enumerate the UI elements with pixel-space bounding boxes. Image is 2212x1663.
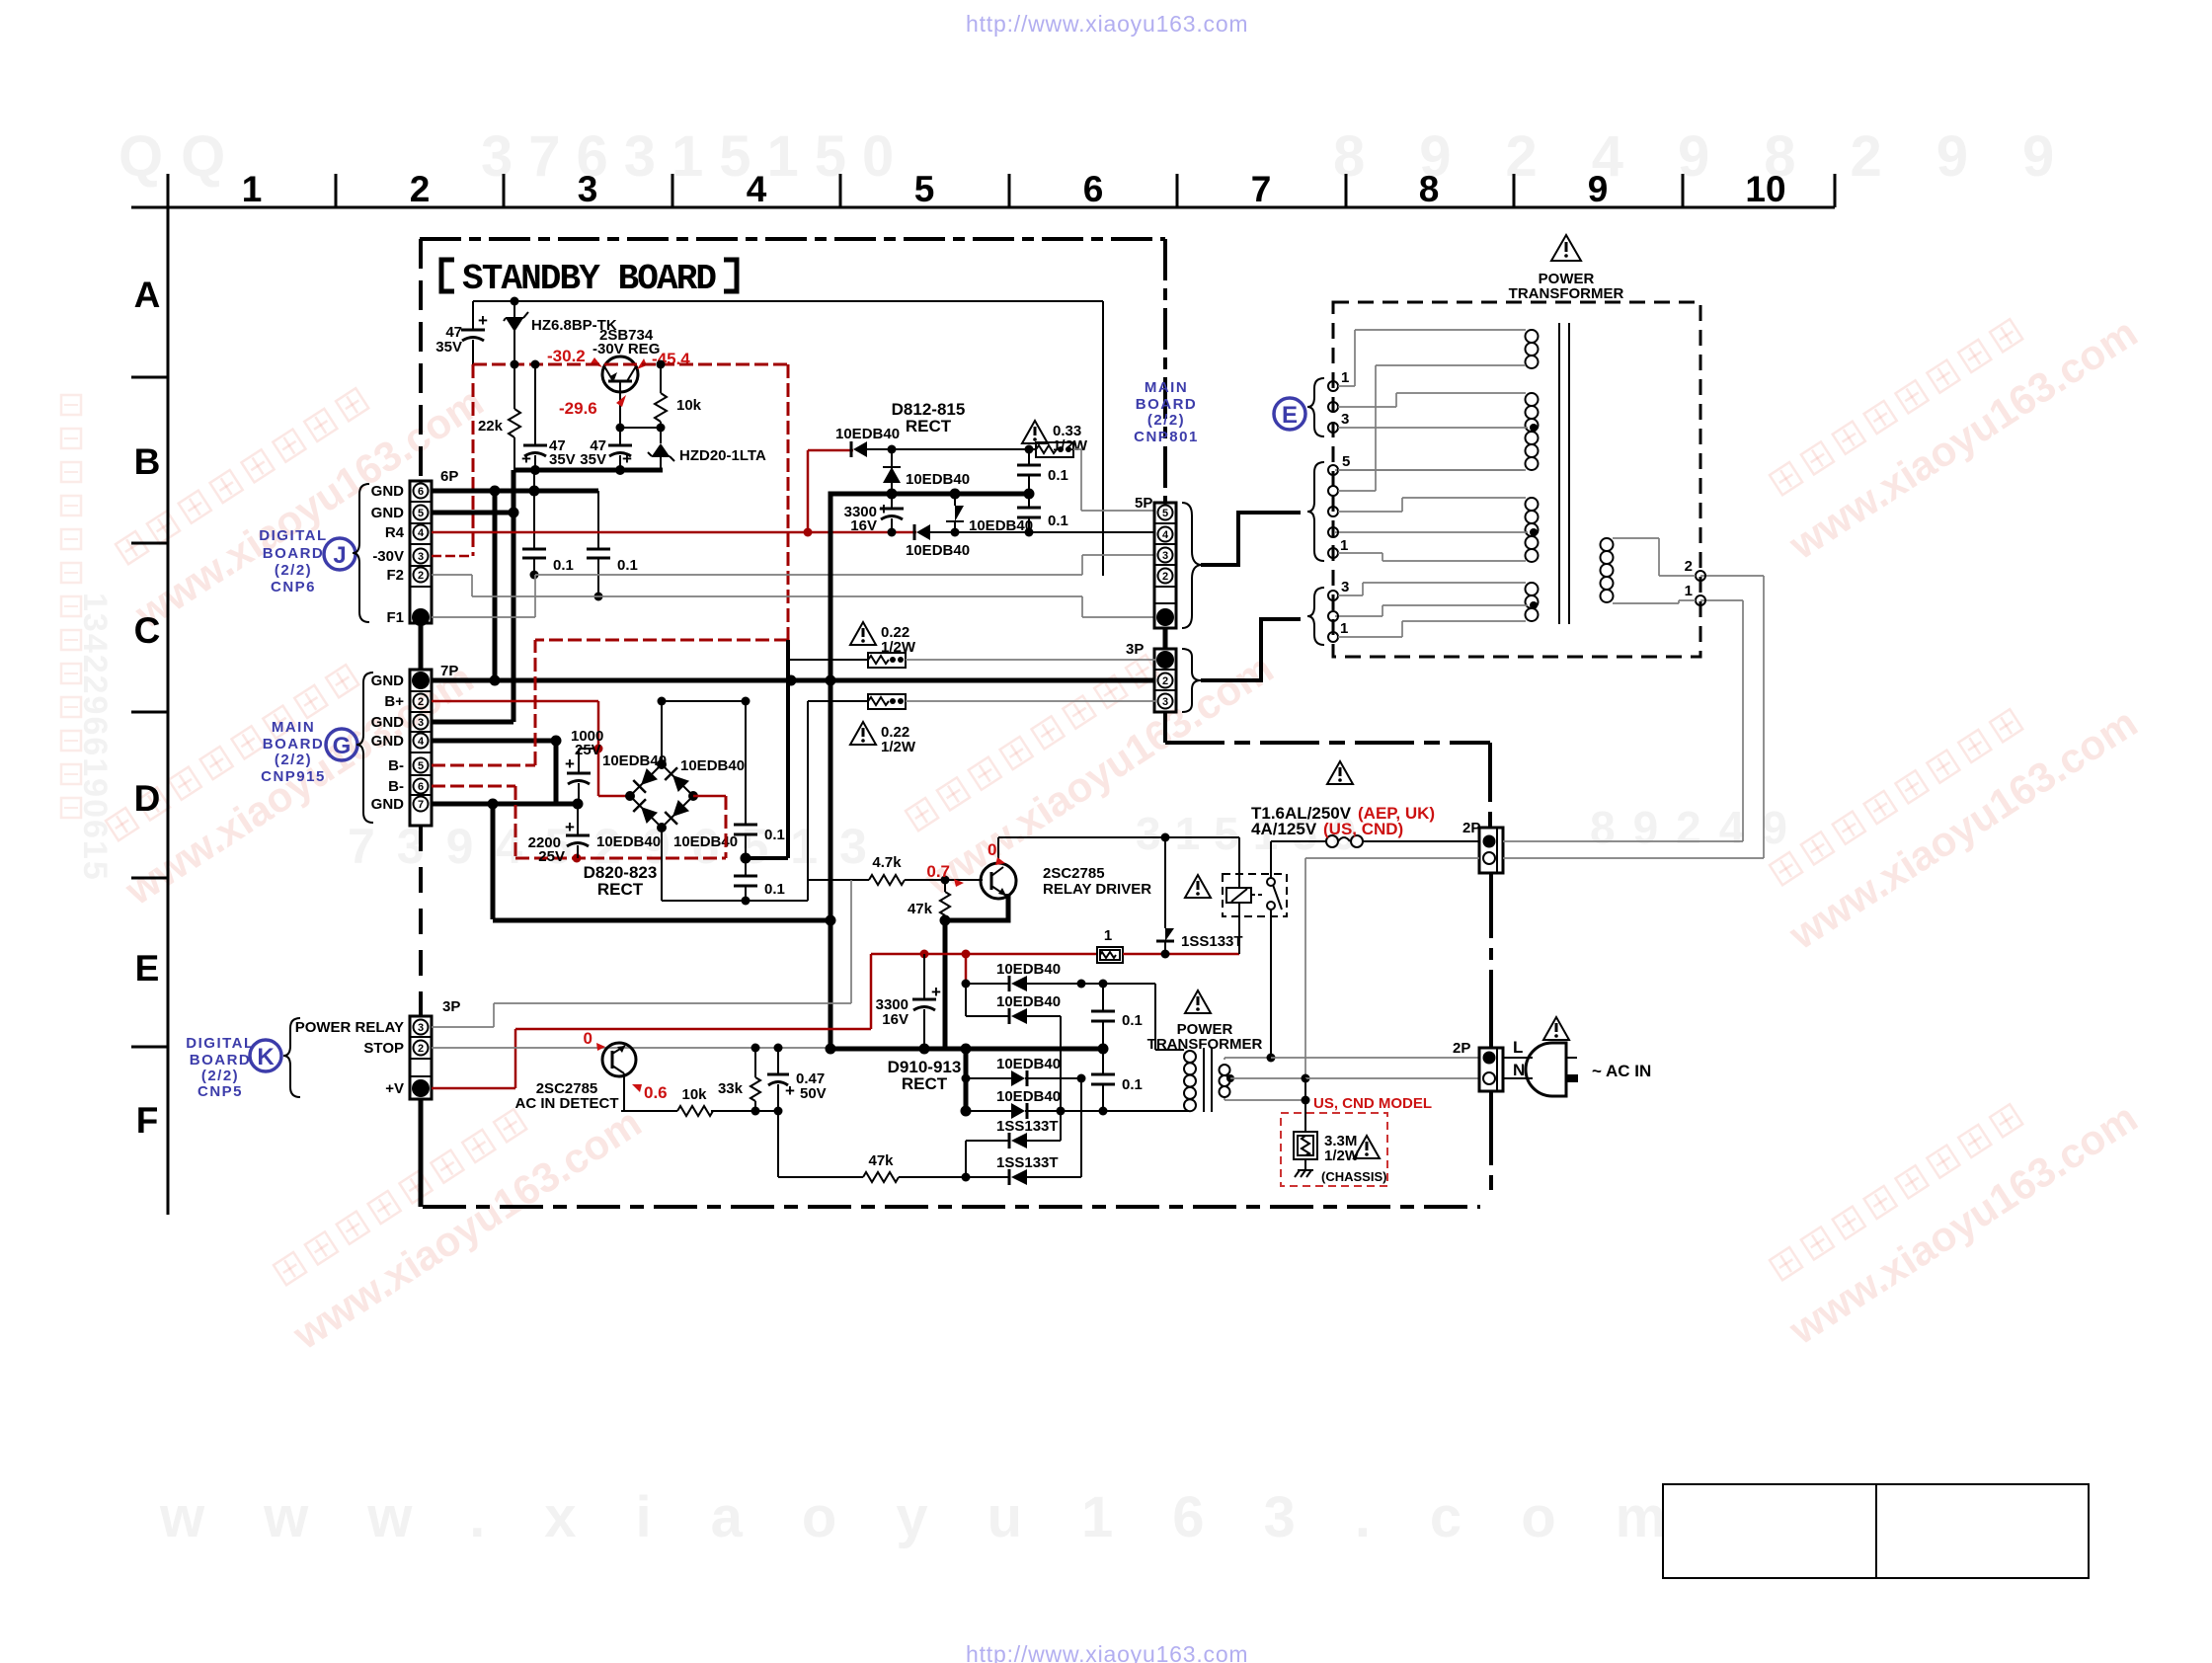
7P pin 7 bbox=[414, 797, 429, 812]
diode 10EDB40 on R4 row bbox=[906, 524, 970, 559]
thick link 5P to 3P bbox=[1163, 628, 1168, 649]
K pin labels bbox=[295, 1019, 404, 1097]
resistor 4.7k bbox=[869, 854, 905, 885]
svg-text:RECT: RECT bbox=[597, 880, 644, 899]
relay coil bbox=[1226, 837, 1251, 954]
top ruler numbers bbox=[242, 169, 1786, 209]
voltage label 0 red (ac det) bbox=[584, 1029, 605, 1051]
svg-text:RECT: RECT bbox=[906, 417, 952, 436]
wire 0.33 to 5P pin5 bbox=[1073, 449, 1155, 511]
transistor Q 2SC2785 relay driver bbox=[981, 837, 1151, 899]
brace transformer group1 bbox=[1307, 378, 1324, 436]
svg-text:4A/125V: 4A/125V bbox=[1251, 820, 1317, 838]
svg-text:10EDB40: 10EDB40 bbox=[906, 542, 970, 559]
pink watermark stamp right lower bbox=[1752, 1051, 2145, 1353]
svg-text:R4: R4 bbox=[385, 524, 405, 541]
wire red row 966 right bbox=[1123, 950, 1239, 959]
label D910-913 RECT bbox=[888, 1058, 962, 1093]
faint left vertical digits column bbox=[76, 593, 114, 882]
svg-text:1: 1 bbox=[1341, 369, 1349, 386]
wire vertical x818 row710 to row912 bbox=[807, 701, 809, 901]
5P pin 4 bbox=[1158, 527, 1173, 542]
standby board title brackets bbox=[441, 260, 737, 291]
svg-text:+V: +V bbox=[385, 1080, 404, 1097]
warning triangle relay bbox=[1185, 875, 1211, 898]
svg-text:10k: 10k bbox=[681, 1086, 707, 1103]
link 6P to 7P bbox=[419, 623, 424, 670]
voltage label 0.7 red bbox=[926, 862, 964, 887]
svg-text:F1: F1 bbox=[386, 609, 404, 626]
label POWER TRANSFORMER top bbox=[1509, 271, 1624, 302]
capacitor 47/35V second bbox=[521, 364, 576, 470]
wire GND5 row bbox=[432, 508, 519, 518]
pink watermark stamp middle bbox=[888, 601, 1281, 904]
wire red vertical x522 to +V bbox=[514, 1029, 517, 1088]
svg-text:+: + bbox=[931, 983, 941, 1001]
svg-text:0: 0 bbox=[584, 1029, 592, 1048]
table box bbox=[1663, 1484, 2089, 1578]
bridge diamond 10EDB40 x4 bbox=[596, 752, 745, 850]
wire B+ red row y710 bbox=[432, 701, 630, 796]
wire GND6 row bbox=[432, 486, 598, 497]
wire +V red row bbox=[432, 1087, 515, 1090]
svg-text:(2/2): (2/2) bbox=[1147, 412, 1185, 429]
wire collector row y848 bbox=[998, 833, 1239, 842]
svg-text:0.1: 0.1 bbox=[553, 557, 574, 574]
svg-text:2P: 2P bbox=[1453, 1040, 1470, 1057]
diode 10EDB40 row1 bbox=[962, 961, 1156, 991]
svg-text:GND: GND bbox=[371, 483, 405, 500]
svg-text:1/2W: 1/2W bbox=[1053, 437, 1088, 454]
warning triangle 0.22 first bbox=[850, 622, 916, 656]
svg-text:GND: GND bbox=[371, 733, 405, 750]
capacitor 0.1 (F1 net) bbox=[522, 491, 574, 580]
capacitor 47/35V third bbox=[580, 428, 632, 470]
wire R4 red row to 5P pin4 bbox=[432, 528, 1155, 537]
svg-text:0.6: 0.6 bbox=[644, 1083, 668, 1102]
7P pin labels bbox=[371, 673, 405, 813]
svg-text:+: + bbox=[879, 500, 889, 518]
wire relay switch bottom to AC L row bbox=[1270, 910, 1272, 1058]
svg-text:16V: 16V bbox=[882, 1011, 908, 1028]
transformer pin number labels bbox=[1340, 369, 1350, 637]
voltage label -30.2 red bbox=[547, 347, 602, 367]
svg-text:3P: 3P bbox=[1126, 641, 1144, 658]
transformer secondary coil 2 bbox=[1335, 393, 1539, 470]
svg-text:DIGITAL: DIGITAL bbox=[186, 1035, 254, 1052]
svg-text:1: 1 bbox=[1340, 620, 1348, 637]
svg-text:10: 10 bbox=[1745, 169, 1785, 209]
wire 0.47 down to 47k row bbox=[777, 1111, 779, 1177]
resistor 47k vertical bbox=[908, 880, 950, 920]
svg-text:4: 4 bbox=[418, 736, 425, 748]
voltage label -29.6 red bbox=[559, 395, 626, 418]
svg-text:BOARD: BOARD bbox=[1136, 396, 1198, 413]
svg-text:-30.2: -30.2 bbox=[547, 347, 586, 365]
svg-text:-30V: -30V bbox=[372, 548, 404, 565]
svg-text:CNP801: CNP801 bbox=[1134, 429, 1199, 445]
svg-text:35V: 35V bbox=[549, 451, 576, 468]
svg-text:+: + bbox=[565, 754, 575, 773]
svg-text:G: G bbox=[333, 733, 352, 759]
svg-text:(US, CND): (US, CND) bbox=[1323, 820, 1403, 838]
svg-text:1: 1 bbox=[1104, 927, 1112, 944]
6P pin 4 bbox=[414, 525, 429, 540]
svg-text:TRANSFORMER: TRANSFORMER bbox=[1147, 1036, 1263, 1053]
wire AC vertical border upper bbox=[1489, 873, 1493, 1048]
svg-text:GND: GND bbox=[371, 673, 405, 689]
svg-text:+: + bbox=[565, 818, 575, 836]
6P pin 1 F1 bbox=[412, 608, 430, 626]
relay RY dashed box bbox=[1223, 874, 1287, 916]
wire AC vertical border lower bbox=[1489, 1091, 1493, 1190]
svg-text:+: + bbox=[521, 449, 531, 468]
svg-text:MAIN: MAIN bbox=[272, 719, 315, 736]
fusible resistor 0.33 bbox=[1036, 442, 1073, 457]
svg-text:E: E bbox=[1282, 402, 1298, 429]
wire vertical to 5P pin2 bbox=[1102, 301, 1104, 576]
wire GND row y731 bbox=[432, 720, 513, 725]
svg-text:0: 0 bbox=[987, 840, 996, 859]
brace transformer group3 bbox=[1307, 588, 1324, 645]
7P pin 6 bbox=[414, 779, 429, 794]
svg-text:0.1: 0.1 bbox=[1122, 1012, 1143, 1029]
wire emitter row y1125 bbox=[621, 1107, 783, 1116]
svg-text:F2: F2 bbox=[386, 567, 404, 584]
wire link x541 bbox=[533, 470, 535, 491]
diode 1SS133T row6 bbox=[996, 1078, 1081, 1185]
K pin 3 bbox=[414, 1020, 429, 1035]
capacitor 47/35V first bbox=[435, 301, 488, 364]
circled K bbox=[250, 1040, 281, 1071]
svg-text:50V: 50V bbox=[800, 1085, 827, 1102]
7P pin 5 bbox=[414, 758, 429, 773]
voltage label -45.4 red bbox=[637, 350, 690, 369]
wire bridge top row y710 bbox=[662, 697, 750, 706]
svg-text:2: 2 bbox=[1162, 571, 1168, 583]
top ruler ticks bbox=[168, 174, 1835, 207]
svg-text:(2/2): (2/2) bbox=[201, 1068, 239, 1084]
svg-text:TRANSFORMER: TRANSFORMER bbox=[1509, 285, 1624, 302]
svg-text:E: E bbox=[135, 948, 160, 989]
7P pin 2 bbox=[414, 694, 429, 709]
diode 10EDB40 vertical down bbox=[946, 494, 1033, 534]
wire AC N row bbox=[1302, 1074, 1480, 1083]
wire red +V feed path bbox=[515, 950, 1097, 1030]
svg-text:10k: 10k bbox=[676, 397, 702, 414]
svg-text:10EDB40: 10EDB40 bbox=[969, 517, 1033, 534]
transformer core lines bbox=[1559, 323, 1569, 624]
warning triangle 3.3M bbox=[1354, 1136, 1380, 1158]
svg-text:QQ: QQ bbox=[118, 124, 243, 189]
fusible resistor 1 bbox=[1097, 927, 1123, 963]
red dashed box bottom edge bbox=[535, 639, 788, 642]
svg-text:http://www.xiaoyu163.com: http://www.xiaoyu163.com bbox=[966, 11, 1248, 37]
wire node2 net right side bbox=[1305, 576, 1764, 1078]
wire F1 net bbox=[432, 555, 1155, 617]
svg-text:47k: 47k bbox=[908, 901, 933, 917]
left ruler line bbox=[167, 174, 170, 1215]
svg-text:1: 1 bbox=[1685, 583, 1693, 599]
svg-text:5: 5 bbox=[1342, 453, 1350, 470]
resistor 10k bbox=[655, 364, 702, 428]
transformer secondary coil 3 bbox=[1335, 498, 1539, 562]
diode 10EDB40 row3 bbox=[962, 1056, 1086, 1086]
svg-text:STANDBY BOARD: STANDBY BOARD bbox=[462, 259, 717, 299]
brace transformer group2 bbox=[1307, 462, 1324, 561]
svg-text:3: 3 bbox=[1162, 550, 1168, 562]
wire GND vertical x520 bbox=[512, 470, 516, 722]
warning triangle 0.33 bbox=[1022, 421, 1088, 454]
svg-text:B-: B- bbox=[388, 757, 404, 774]
top ruler line bbox=[131, 206, 1835, 209]
svg-text:376315150: 376315150 bbox=[481, 124, 909, 189]
resistor 33k bbox=[718, 1048, 760, 1111]
svg-text:33k: 33k bbox=[718, 1080, 744, 1097]
chassis red dashed box bbox=[1281, 1113, 1387, 1186]
pink watermark stamp left mid bbox=[88, 611, 481, 913]
svg-text:1SS133T: 1SS133T bbox=[996, 1154, 1059, 1171]
resistor 22k bbox=[478, 364, 520, 470]
svg-text:STOP: STOP bbox=[363, 1040, 404, 1057]
svg-text:10EDB40: 10EDB40 bbox=[680, 757, 745, 774]
svg-text:4.7k: 4.7k bbox=[872, 854, 902, 871]
zener diode HZD20-1LTA bbox=[648, 428, 766, 470]
svg-text:RECT: RECT bbox=[902, 1074, 948, 1093]
thick link K to bottom border bbox=[419, 1099, 424, 1207]
svg-text:CNP5: CNP5 bbox=[197, 1083, 243, 1100]
pink watermark stamp left upper bbox=[98, 335, 491, 637]
capacitor 0.1 upper right bbox=[1017, 449, 1068, 494]
svg-text:0.1: 0.1 bbox=[617, 557, 638, 574]
wire bridge top to GND row bbox=[658, 697, 667, 765]
transformer node 1 bbox=[1685, 583, 1705, 605]
pink watermark stamp right mid bbox=[1752, 656, 2145, 958]
label D820-823 RECT bbox=[584, 863, 658, 899]
svg-text:10EDB40: 10EDB40 bbox=[835, 426, 900, 442]
svg-text:5: 5 bbox=[418, 508, 424, 519]
K pin 2 bbox=[414, 1041, 429, 1056]
capacitor 0.1 lower right bbox=[1017, 494, 1068, 532]
lower transformer core bbox=[1204, 1048, 1212, 1112]
svg-text:BOARD: BOARD bbox=[263, 545, 325, 562]
svg-text:10EDB40: 10EDB40 bbox=[906, 471, 970, 488]
svg-text:http://www.xiaoyu163.com: http://www.xiaoyu163.com bbox=[966, 1641, 1248, 1663]
label MAIN BOARD CNP915 bbox=[261, 719, 326, 785]
svg-text:3: 3 bbox=[418, 717, 424, 729]
lower transformer secondary coil bbox=[1184, 1051, 1196, 1111]
svg-text:B-: B- bbox=[388, 778, 404, 795]
svg-text:4: 4 bbox=[1162, 529, 1169, 541]
6P pin 5 bbox=[414, 506, 429, 520]
brace for K connector bbox=[283, 1018, 300, 1097]
left ruler letters bbox=[134, 275, 161, 1141]
wire row1 to lower transformer top bbox=[1155, 984, 1184, 1050]
standby board border top dash-dot bbox=[420, 237, 1165, 241]
5P pin 5 bbox=[1158, 506, 1173, 520]
standby board title text bbox=[462, 259, 717, 299]
standby board border right vertical bbox=[1163, 239, 1167, 503]
fuse T1.6AL bbox=[1271, 835, 1479, 847]
transformer primary coil bbox=[1601, 538, 1697, 603]
svg-text:16V: 16V bbox=[850, 517, 877, 534]
svg-text:1: 1 bbox=[242, 169, 263, 209]
wire row y912 bbox=[662, 897, 808, 906]
svg-text:0.1: 0.1 bbox=[1048, 467, 1068, 484]
3P right pin 3 bbox=[1158, 694, 1173, 709]
svg-text:1: 1 bbox=[1340, 537, 1348, 554]
wire thick corner x798 bbox=[746, 640, 788, 858]
svg-text:J: J bbox=[333, 542, 346, 569]
svg-text:CNP6: CNP6 bbox=[271, 579, 316, 595]
5P pin 3 bbox=[1158, 548, 1173, 563]
svg-text:5: 5 bbox=[1162, 508, 1168, 519]
fusible resistor 0.22 first bbox=[788, 653, 1155, 668]
AC plug symbol bbox=[1503, 1043, 1651, 1096]
2P AC pin N bbox=[1483, 1072, 1495, 1084]
svg-text:B: B bbox=[134, 441, 161, 482]
svg-text:2: 2 bbox=[410, 169, 431, 209]
wire GND row y814 bbox=[432, 799, 584, 920]
label D812-815 RECT bbox=[892, 400, 966, 436]
K pin 1 +V bbox=[412, 1079, 430, 1097]
svg-text:3: 3 bbox=[418, 551, 424, 563]
svg-text:1SS133T: 1SS133T bbox=[1181, 933, 1243, 950]
wire chassis branch vertical bbox=[1302, 1078, 1310, 1132]
capacitor 1000/25V bbox=[565, 728, 603, 804]
svg-text:D: D bbox=[134, 778, 161, 819]
svg-text:AC IN DETECT: AC IN DETECT bbox=[515, 1095, 619, 1112]
transformer secondary coil 1 bbox=[1355, 330, 1539, 368]
svg-text:2: 2 bbox=[418, 1043, 424, 1055]
capacitor 0.47/50V bbox=[767, 1048, 827, 1111]
svg-text:10EDB40: 10EDB40 bbox=[596, 833, 661, 850]
svg-text:2: 2 bbox=[418, 696, 424, 708]
chassis ground symbol bbox=[1295, 1159, 1386, 1184]
svg-text:5P: 5P bbox=[1135, 495, 1152, 512]
svg-text:2: 2 bbox=[1162, 675, 1168, 687]
warning triangle lower transformer bbox=[1185, 990, 1211, 1013]
left ruler ticks bbox=[131, 377, 168, 1047]
svg-text:MAIN: MAIN bbox=[1145, 379, 1188, 396]
pink watermark stamp bottom left bbox=[256, 1056, 649, 1358]
svg-text:0.1: 0.1 bbox=[1122, 1076, 1143, 1093]
label POWER TRANSFORMER lower bbox=[1147, 1021, 1263, 1053]
svg-text:0.7: 0.7 bbox=[926, 862, 950, 881]
svg-text:3: 3 bbox=[1162, 696, 1168, 708]
svg-text:K: K bbox=[257, 1044, 275, 1070]
red dashed box top edge bbox=[473, 360, 788, 369]
svg-text:BOARD: BOARD bbox=[190, 1052, 252, 1069]
svg-text:6: 6 bbox=[418, 486, 424, 498]
svg-text:C: C bbox=[134, 610, 161, 651]
svg-text:10EDB40: 10EDB40 bbox=[996, 1056, 1061, 1072]
diode 10EDB40 row4 bbox=[961, 1088, 1190, 1119]
wire STOP row / main bus y1062 bbox=[432, 1044, 1109, 1055]
zener diode HZ6.8BP-TK bbox=[504, 301, 617, 364]
voltage label 0.6 red bbox=[632, 1083, 668, 1102]
svg-text:10EDB40: 10EDB40 bbox=[996, 993, 1061, 1010]
svg-text:L: L bbox=[1513, 1038, 1523, 1057]
wire B- pin6 red path bbox=[432, 786, 726, 863]
faint top digits row bbox=[118, 124, 2108, 189]
svg-text:(2/2): (2/2) bbox=[275, 752, 312, 768]
thick stair wire 3P brace to transformer group3 bbox=[1201, 619, 1301, 680]
connector 2P AC box bbox=[1453, 1038, 1525, 1091]
svg-text:7P: 7P bbox=[440, 663, 458, 679]
wire bridge right red to B- row bbox=[693, 796, 726, 858]
svg-text:892498299: 892498299 bbox=[1333, 124, 2108, 189]
svg-text:3: 3 bbox=[578, 169, 598, 209]
svg-text:25V: 25V bbox=[575, 742, 601, 758]
svg-text:BOARD: BOARD bbox=[263, 736, 325, 752]
svg-text:10EDB40: 10EDB40 bbox=[996, 1088, 1061, 1105]
svg-text:0.1: 0.1 bbox=[764, 827, 785, 843]
3P right pin 2 bbox=[1158, 673, 1173, 688]
transformer pin circles column bbox=[1328, 381, 1524, 642]
svg-text:9: 9 bbox=[1588, 169, 1609, 209]
7P pin 4 bbox=[414, 734, 429, 749]
connector 3P box (right) bbox=[1126, 641, 1176, 712]
svg-text:GND: GND bbox=[371, 505, 405, 521]
svg-text:7: 7 bbox=[1251, 169, 1272, 209]
svg-text:+: + bbox=[622, 449, 632, 468]
svg-text:A: A bbox=[134, 275, 161, 315]
diode 1SS133T row5 bbox=[966, 1118, 1061, 1177]
wire GND row y750 bbox=[432, 736, 562, 805]
faint middle digits row left bbox=[348, 819, 889, 874]
svg-text:10EDB40: 10EDB40 bbox=[602, 752, 667, 769]
label US CND MODEL red bbox=[1313, 1095, 1432, 1112]
capacitor 0.1 matrix lower bbox=[1091, 1049, 1143, 1111]
svg-text:3: 3 bbox=[1341, 411, 1349, 428]
transformer dashed box bbox=[1333, 302, 1700, 657]
dashed link 7P to K bbox=[419, 826, 423, 1016]
transistor Q 2SB734 -30V REG bbox=[592, 327, 660, 428]
svg-text:6P: 6P bbox=[440, 468, 458, 485]
connector 7P box bbox=[410, 663, 458, 826]
capacitor 3300/16V second bbox=[876, 954, 941, 1049]
svg-text:1/2W: 1/2W bbox=[881, 739, 916, 755]
svg-text:3: 3 bbox=[1341, 579, 1349, 595]
wire bridge bottom to row912 bbox=[661, 828, 663, 901]
svg-text:10EDB40: 10EDB40 bbox=[996, 961, 1061, 978]
wire B- pin5 red path bbox=[432, 640, 535, 765]
wire relay switch top to fuse row bbox=[1270, 841, 1272, 878]
capacitor 0.1 (col755 upper) bbox=[734, 701, 785, 858]
resistor 10k horizontal bbox=[677, 1086, 713, 1116]
svg-text:www.xiaoyu163.com: www.xiaoyu163.com bbox=[159, 1485, 1725, 1549]
svg-text:1SS133T: 1SS133T bbox=[996, 1118, 1059, 1135]
3P right pin 1 bbox=[1156, 651, 1174, 669]
diode 10EDB40 vertical up bbox=[883, 449, 970, 494]
relay switch bbox=[1251, 878, 1282, 910]
fusible resistor 3.3M bbox=[1294, 1132, 1360, 1164]
svg-text:4: 4 bbox=[418, 527, 425, 539]
svg-text:-29.6: -29.6 bbox=[559, 399, 597, 418]
2P AC pin L bbox=[1483, 1052, 1496, 1065]
wire GND vertical x501 bbox=[493, 491, 498, 680]
6P pin labels bbox=[371, 483, 405, 626]
bottom url text bbox=[966, 1641, 1248, 1663]
wire red vertical x818 bbox=[807, 450, 810, 532]
6P pin 2 bbox=[414, 568, 429, 583]
svg-text:0.1: 0.1 bbox=[1048, 513, 1068, 529]
svg-text:(CHASSIS): (CHASSIS) bbox=[1321, 1169, 1386, 1184]
wire D812 top row y455 bbox=[808, 445, 1036, 454]
6P pin 6 bbox=[414, 484, 429, 499]
standby board border 3P-to-right jog bbox=[1165, 712, 1490, 828]
